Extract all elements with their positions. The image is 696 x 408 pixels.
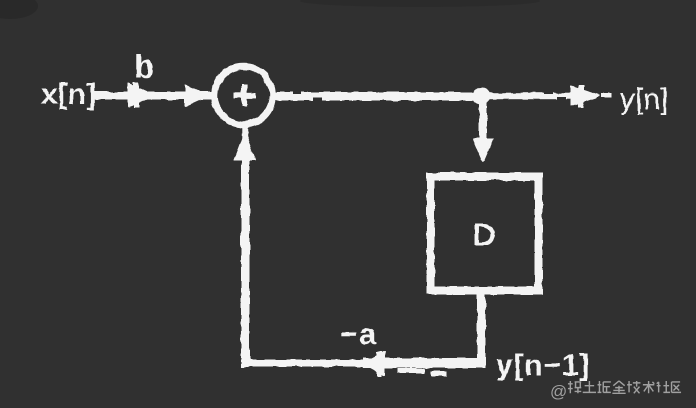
svg-text:x[n]: x[n] (41, 78, 96, 111)
arrowhead into delay box (473, 139, 493, 163)
char she (657, 381, 670, 392)
arrowhead at summer input (185, 85, 208, 106)
svg-text:−a: −a (340, 318, 378, 351)
char jin (612, 381, 625, 393)
dark blotch top-left (0, 0, 38, 19)
wire summer to output (275, 93, 485, 101)
svg-text:y[n−1]: y[n−1] (496, 349, 590, 382)
svg-text:b: b (134, 48, 154, 85)
feedback bottom wire (241, 360, 365, 366)
watermark @juejin (550, 381, 670, 401)
output arrowhead (571, 87, 600, 106)
delay block D box (431, 177, 539, 291)
speck under feedback wire (398, 369, 424, 373)
char tu (583, 381, 596, 392)
wire junction down to delay (480, 96, 487, 143)
arrowhead left on feedback wire (363, 352, 385, 376)
char shu (643, 381, 654, 393)
svg-text:y[n]: y[n] (620, 83, 668, 116)
junction node (474, 88, 490, 104)
tick on arrowhead (134, 83, 139, 108)
line break notches (293, 90, 566, 101)
speck after arrow tip (602, 94, 611, 98)
wire input to summer (94, 92, 214, 99)
plus sign (234, 93, 255, 98)
feedback left vertical wire (242, 159, 250, 367)
dark blotch top-edge (300, 0, 540, 7)
svg-text:D: D (473, 217, 495, 252)
char ji (627, 381, 640, 393)
arrowhead up into summer (235, 133, 256, 161)
char jue (598, 381, 611, 392)
summer circle U1 (215, 67, 273, 125)
char xi (568, 381, 581, 393)
char qu (672, 382, 682, 392)
arrowhead mid input wire (129, 84, 155, 107)
svg-text:@: @ (550, 382, 567, 401)
wire delay bottom down (478, 291, 486, 365)
